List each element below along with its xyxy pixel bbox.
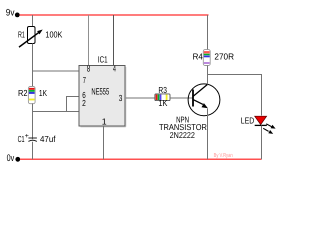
wire pin 1 to 0v rail — [103, 126, 105, 159]
wire collector branch to LED column — [207, 74, 262, 76]
svg-text:270R: 270R — [214, 51, 234, 61]
svg-text:NE555: NE555 — [91, 87, 109, 97]
LED D1 — [255, 116, 267, 125]
svg-text:R1: R1 — [18, 30, 25, 40]
svg-text:2N2222: 2N2222 — [170, 130, 196, 140]
svg-text:1K: 1K — [158, 98, 167, 108]
svg-text:C1: C1 — [18, 134, 25, 144]
svg-text:0v: 0v — [7, 153, 15, 164]
wire R3 to base — [170, 97, 193, 99]
resistor R3 — [155, 94, 170, 101]
wire R4 bottom to collector — [207, 66, 209, 85]
node 9v terminal dot — [15, 13, 20, 18]
node 0v terminal dot — [15, 157, 20, 162]
svg-text:9v: 9v — [6, 7, 15, 18]
wire pin 8 to rail — [88, 15, 90, 66]
wire R1 bottom to R2 top — [32, 44, 34, 87]
svg-text:7: 7 — [83, 75, 86, 85]
svg-text:+: + — [25, 133, 29, 140]
transistor Q1 2N2222 — [188, 84, 220, 116]
svg-text:R4: R4 — [193, 51, 203, 61]
wire pin6 branch — [66, 96, 79, 98]
svg-text:By V.Ryan: By V.Ryan — [214, 153, 233, 159]
wire 9v rail corner to R4 — [207, 15, 209, 50]
LED emission arrow 2 — [263, 128, 273, 134]
svg-text:47uf: 47uf — [40, 134, 56, 144]
wire LED cathode to 0v rail — [261, 126, 263, 160]
svg-text:3: 3 — [119, 93, 123, 103]
resistor R4 — [203, 50, 210, 66]
wire C1 bottom to 0v rail — [32, 142, 34, 160]
svg-text:IC1: IC1 — [98, 54, 108, 64]
wire LED column down — [261, 74, 263, 116]
LED emission arrow 1 — [266, 124, 275, 129]
wire pin 3 to R3 — [126, 97, 156, 99]
svg-text:2: 2 — [82, 98, 86, 108]
potentiometer R1 — [19, 27, 43, 48]
wire pin 4 to rail — [113, 15, 115, 66]
wire top 9v rail — [20, 14, 209, 16]
svg-text:R2: R2 — [18, 88, 28, 98]
svg-text:R3: R3 — [158, 85, 167, 95]
wire emitter to 0v rail — [207, 109, 209, 160]
wire R2 bottom to junction — [32, 103, 34, 139]
resistor R2 — [28, 87, 35, 104]
IC U1 NE555 timer (IC1) body — [79, 66, 126, 127]
svg-text:LED: LED — [241, 115, 255, 125]
wire pin7 branch — [32, 70, 79, 72]
wire 9v rail to R1 top — [32, 15, 34, 27]
svg-text:1K: 1K — [39, 88, 47, 98]
svg-text:1: 1 — [102, 117, 107, 127]
wire bottom 0v rail — [20, 158, 262, 160]
capacitor C1 — [28, 138, 37, 141]
svg-text:100K: 100K — [45, 30, 62, 40]
wire pin6 stub vertical — [66, 96, 68, 112]
wire pin2 branch — [32, 111, 79, 113]
